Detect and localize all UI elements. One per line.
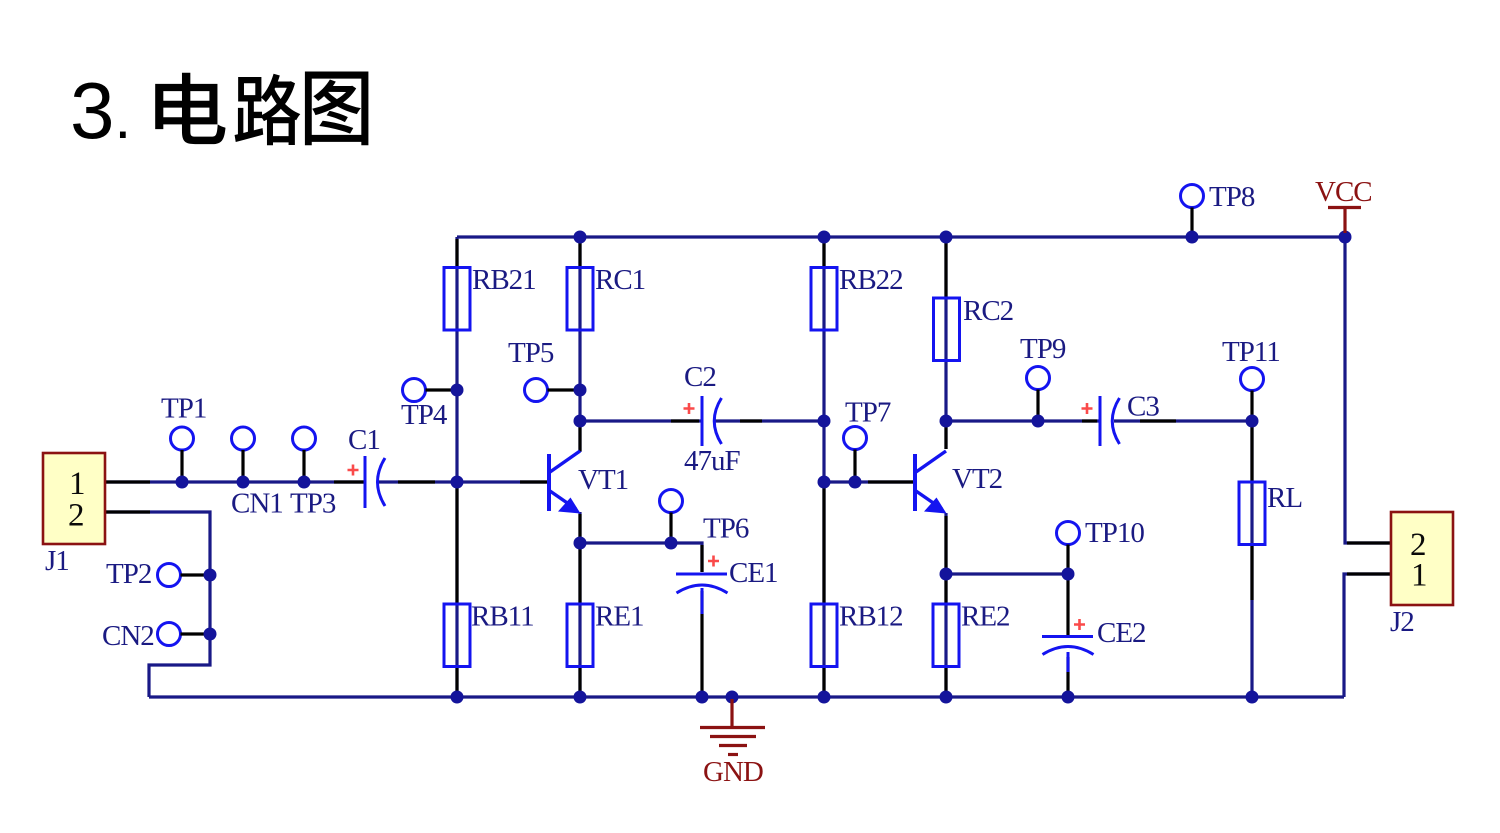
test point CN2 bbox=[158, 623, 210, 646]
wire black CE2 bottom lead bbox=[1066, 657, 1069, 695]
svg-text:TP5: TP5 bbox=[508, 337, 554, 369]
test point TP11 bbox=[1241, 368, 1264, 421]
svg-text:47uF: 47uF bbox=[684, 445, 741, 477]
svg-text:VT1: VT1 bbox=[578, 464, 628, 496]
svg-text:RL: RL bbox=[1267, 482, 1302, 514]
svg-text:C2: C2 bbox=[684, 361, 716, 393]
test point CN1 bbox=[232, 427, 255, 481]
wire black RB12 lower lead bbox=[822, 667, 825, 695]
svg-text:RB11: RB11 bbox=[471, 601, 534, 633]
wire VT1 emitter node row bbox=[580, 543, 702, 572]
svg-text:3.: 3. bbox=[70, 66, 131, 155]
svg-text:TP2: TP2 bbox=[106, 558, 151, 590]
capacitor C1 bbox=[365, 456, 385, 508]
wire black RL bottom lead bbox=[1250, 545, 1253, 600]
wire black RE1 upper lead bbox=[578, 545, 581, 603]
svg-text:2: 2 bbox=[68, 498, 85, 534]
transistor VT2 bbox=[915, 451, 947, 514]
svg-text:VT2: VT2 bbox=[952, 463, 1002, 495]
test point TP10 bbox=[1057, 522, 1080, 574]
resistor RE1 bbox=[567, 604, 593, 667]
svg-text:CE2: CE2 bbox=[1097, 617, 1146, 649]
plus sign C3 bbox=[1082, 403, 1093, 414]
wire J1 pin2 path bbox=[105, 512, 210, 697]
title glyph 电 bbox=[155, 73, 225, 144]
wire VT2 emitter node row bbox=[946, 572, 1068, 575]
svg-text:TP8: TP8 bbox=[1209, 181, 1255, 213]
wire C2 input row bbox=[580, 419, 701, 422]
wire V1 RB21/RB11 vertical bbox=[455, 237, 458, 697]
wire bottom ground rail bbox=[149, 695, 1344, 698]
wire C3 input row bbox=[946, 419, 1099, 422]
wire black RE2 upper lead bbox=[944, 576, 947, 603]
wire C3 output to RL node bbox=[1114, 419, 1252, 422]
wire black RL top lead bbox=[1250, 423, 1253, 481]
test point TP9 bbox=[1027, 367, 1050, 421]
svg-text:RC1: RC1 bbox=[595, 264, 645, 296]
svg-text:RB12: RB12 bbox=[839, 601, 903, 633]
junction dots stage1 bbox=[451, 384, 678, 550]
resistor RE2 bbox=[933, 604, 959, 667]
test point TP6 bbox=[660, 490, 683, 543]
resistor RC2 bbox=[934, 298, 960, 361]
junction dots J1 pin2 branch bbox=[204, 569, 217, 641]
wire black VT1 base end bbox=[520, 480, 548, 483]
junction dots stage2 bbox=[818, 415, 1259, 581]
junction dots bottom rail bbox=[451, 691, 1259, 704]
test point TP1 bbox=[171, 427, 194, 481]
title glyph 图 bbox=[305, 72, 369, 146]
svg-text:J1: J1 bbox=[45, 545, 69, 577]
svg-text:RB21: RB21 bbox=[472, 264, 536, 296]
wire black before C1 bbox=[334, 480, 364, 483]
wire blue CE1 arc lead bbox=[701, 588, 704, 614]
wire top VCC rail bbox=[457, 235, 1345, 238]
wire J2 pin1 to ground rail bbox=[1344, 574, 1390, 697]
svg-text:TP11: TP11 bbox=[1222, 336, 1280, 368]
wire VCC drop to J2 pin2 bbox=[1345, 237, 1390, 543]
wire black J2 pin2 stub bbox=[1347, 541, 1390, 544]
plus sign CE1 bbox=[708, 556, 719, 567]
svg-text:TP10: TP10 bbox=[1085, 517, 1144, 549]
wire black after C2 bbox=[740, 419, 762, 422]
capacitor C3 bbox=[1100, 396, 1120, 446]
test point TP5 bbox=[525, 379, 580, 402]
plus sign C2 bbox=[684, 403, 695, 414]
svg-text:GND: GND bbox=[703, 756, 763, 788]
svg-text:CN2: CN2 bbox=[102, 620, 154, 652]
svg-text:RE2: RE2 bbox=[961, 601, 1010, 633]
svg-text:J2: J2 bbox=[1390, 606, 1414, 638]
resistor RB22 bbox=[811, 268, 837, 331]
wire black before C2 bbox=[671, 419, 699, 422]
capacitor C2 bbox=[702, 396, 722, 446]
svg-text:C3: C3 bbox=[1127, 391, 1159, 423]
junction dots top rail bbox=[574, 231, 1352, 244]
test point TP3 bbox=[293, 427, 316, 481]
wire black VT1 emitter lead bbox=[578, 514, 581, 541]
test point TP2 bbox=[158, 564, 210, 587]
wire black CE2 top lead bbox=[1066, 576, 1069, 635]
resistor RB11 bbox=[444, 604, 470, 667]
svg-text:CN1: CN1 bbox=[231, 488, 283, 520]
test point TP8 bbox=[1181, 185, 1204, 237]
wire V4 RC2 vertical bbox=[944, 237, 947, 449]
svg-text:VCC: VCC bbox=[1315, 176, 1372, 208]
resistor RC1 bbox=[567, 268, 593, 331]
resistor RL bbox=[1239, 482, 1265, 545]
wire black after C1 bbox=[398, 480, 435, 483]
test point TP7 bbox=[844, 427, 867, 482]
wire black RE1 lower lead bbox=[578, 667, 581, 695]
wire black J2 pin1 stub bbox=[1347, 572, 1390, 575]
svg-text:TP7: TP7 bbox=[845, 397, 891, 429]
wire black J1 pin2 stub bbox=[105, 510, 150, 513]
svg-text:1: 1 bbox=[1411, 558, 1428, 594]
wire black before C3 bbox=[1082, 419, 1097, 422]
title glyph 路 bbox=[235, 74, 301, 145]
svg-text:RE1: RE1 bbox=[595, 601, 644, 633]
plus sign C1 bbox=[348, 465, 359, 476]
capacitor CE1 bbox=[676, 574, 728, 593]
wire C1 output to VT1 base bbox=[379, 480, 548, 483]
wire blue CE2 arc lead bbox=[1067, 652, 1070, 672]
resistor RB12 bbox=[811, 604, 837, 667]
wire black RE2 lower lead bbox=[944, 667, 947, 695]
svg-text:TP1: TP1 bbox=[161, 393, 206, 425]
wire black rail to RC1 bbox=[578, 239, 581, 267]
junction dots input row bbox=[176, 476, 464, 489]
plus sign CE2 bbox=[1074, 619, 1085, 630]
wire RL vertical bbox=[1250, 421, 1253, 697]
wire V2 RC1 vertical bbox=[578, 237, 581, 452]
wire V4 RE2 vertical bbox=[944, 513, 947, 697]
wire black J1 pin1 stub bbox=[105, 480, 150, 483]
wire V3 RB22/RB12 vertical bbox=[822, 237, 825, 697]
svg-text:TP9: TP9 bbox=[1020, 333, 1066, 365]
wire black RB12 upper lead bbox=[822, 484, 825, 603]
wire black VT2 emitter lead bbox=[944, 516, 947, 572]
wire black CE1 bottom lead bbox=[700, 591, 703, 695]
wire black rail to RB22 bbox=[822, 239, 825, 267]
wire black after C3 bbox=[1140, 419, 1176, 422]
wire VT2 base row bbox=[824, 480, 915, 483]
capacitor CE2 bbox=[1042, 637, 1094, 655]
wire black VT1 collector lead bbox=[578, 423, 581, 451]
wire V2 RE1 vertical bbox=[578, 512, 581, 697]
wire black VT2 base end bbox=[868, 480, 915, 483]
transistor VT1 bbox=[549, 451, 581, 514]
wire C2 output to base2 node bbox=[715, 419, 824, 422]
test point TP4 bbox=[403, 379, 457, 402]
wire black RB11 lower lead bbox=[455, 667, 458, 695]
svg-text:CE1: CE1 bbox=[729, 557, 778, 589]
svg-text:TP3: TP3 bbox=[290, 488, 336, 520]
connector J2 bbox=[1391, 512, 1453, 605]
svg-text:RB22: RB22 bbox=[839, 264, 903, 296]
wire black rail to RB21 bbox=[455, 239, 458, 267]
wire black VT2 collector lead bbox=[944, 423, 947, 449]
svg-text:TP4: TP4 bbox=[401, 399, 448, 431]
wire J1 pin1 row bbox=[105, 480, 365, 483]
connector J1 bbox=[43, 453, 105, 544]
svg-text:RC2: RC2 bbox=[963, 295, 1013, 327]
wire black RB11 upper lead bbox=[455, 484, 458, 603]
svg-text:TP6: TP6 bbox=[703, 513, 749, 545]
ground symbol GND bbox=[700, 699, 765, 788]
wire black rail to RC2 bbox=[944, 239, 947, 297]
power symbol VCC bbox=[1315, 176, 1372, 233]
svg-text:C1: C1 bbox=[348, 424, 380, 456]
resistor RB21 bbox=[444, 268, 470, 331]
wire black CE1 top stub bbox=[700, 545, 703, 572]
